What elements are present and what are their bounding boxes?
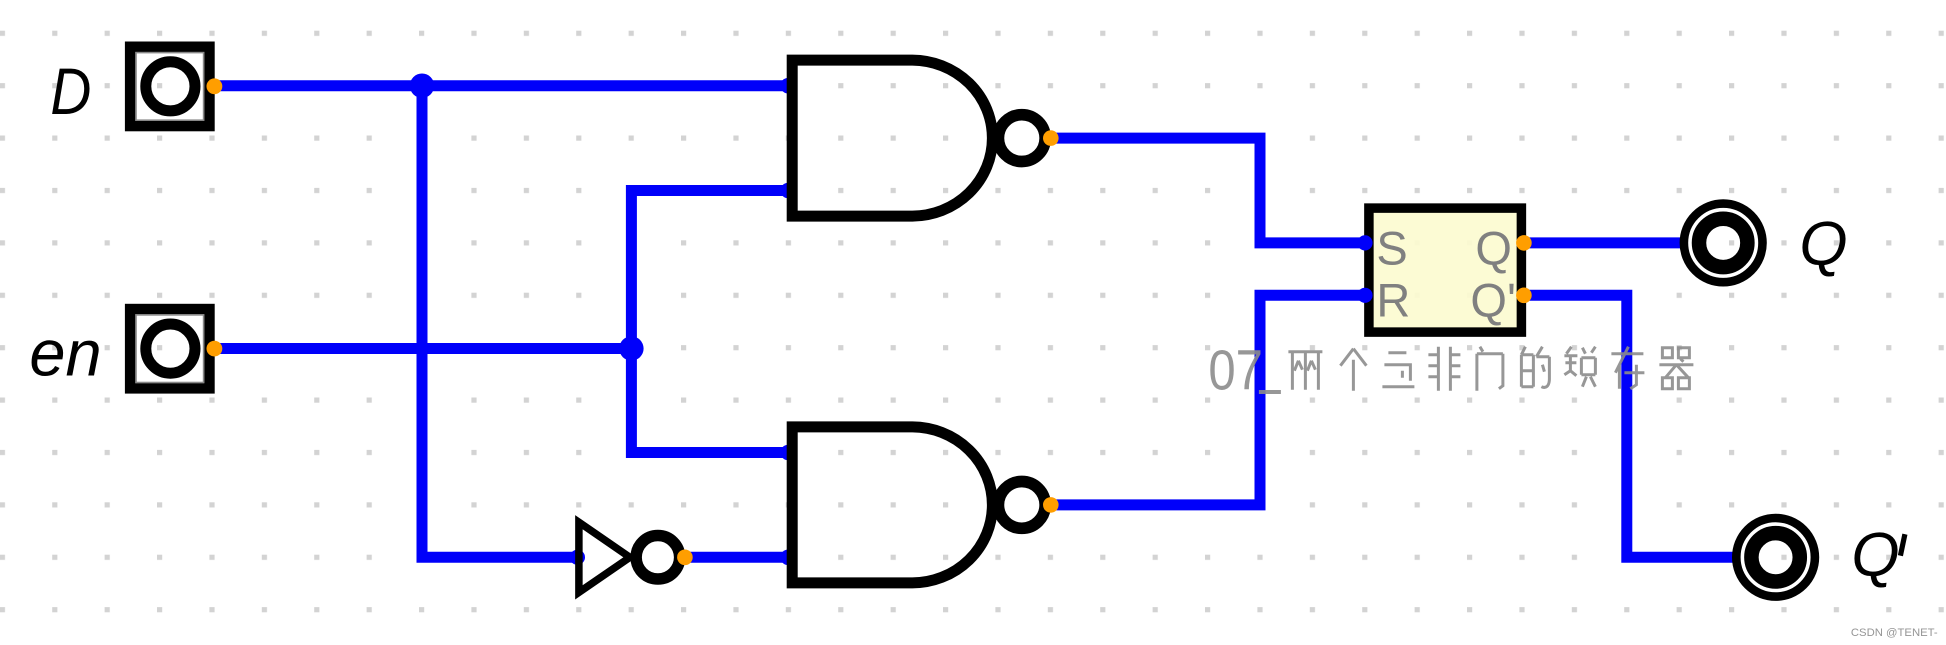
junction on en wire — [619, 336, 643, 360]
NAND gate G2 bubble — [998, 482, 1045, 529]
label D — [50, 55, 91, 129]
NAND gate G2 body — [792, 427, 992, 583]
wire NAND2 out to R — [1051, 295, 1364, 505]
inverter G3 bubble — [636, 536, 680, 580]
wire Q to output terminal — [1524, 237, 1688, 248]
output terminal Q — [1684, 204, 1763, 283]
pin dot NAND1 output — [1043, 130, 1059, 146]
svg-text:Q: Q — [1851, 521, 1899, 590]
pin dot en output — [207, 341, 223, 357]
svg-text:07: 07 — [1208, 339, 1263, 402]
output terminal Q' — [1736, 518, 1815, 597]
wire junction up to NAND1 input2 — [631, 191, 789, 349]
pin dot inverter output — [677, 550, 693, 566]
wire end cap NAND2 input1 — [780, 445, 796, 461]
svg-text:Q: Q — [1799, 210, 1847, 279]
svg-text:Q: Q — [1475, 222, 1512, 275]
wire inverter out to NAND2 input2 — [685, 552, 790, 563]
NAND gate G1 body — [792, 60, 992, 216]
wire D input to NAND1 input1 — [212, 80, 789, 91]
wire end cap NAND2 input2 — [780, 550, 796, 566]
pin dot D output — [207, 78, 223, 94]
junction on D wire — [410, 74, 434, 98]
wire junction down to NAND2 input1 — [631, 349, 789, 453]
watermark glyphs CJK — [1288, 347, 1693, 391]
wire en to junction — [212, 343, 631, 354]
wire NAND1 out to S — [1051, 138, 1364, 243]
input button D — [130, 47, 209, 126]
svg-text:R: R — [1376, 274, 1410, 327]
NAND gate G1 bubble — [998, 115, 1045, 162]
pin dot U1 Q output — [1516, 235, 1532, 251]
wire end cap NAND1 input1 — [780, 78, 796, 94]
inverter G3 triangle — [579, 522, 630, 592]
wire D branch down to inverter — [422, 86, 576, 558]
svg-text:D: D — [50, 55, 91, 129]
svg-text:en: en — [29, 317, 101, 390]
SR latch U1 body — [1369, 208, 1522, 332]
pin dot U1 Q' output — [1516, 288, 1532, 304]
wire end cap inverter input — [570, 550, 585, 565]
wire end cap R pin — [1357, 288, 1372, 303]
wire Q' to output terminal — [1524, 295, 1740, 557]
watermark text 07_ — [1208, 339, 1281, 402]
wire end cap NAND1 input2 — [780, 183, 796, 199]
pin dot NAND2 output — [1043, 497, 1059, 513]
svg-text:S: S — [1376, 222, 1407, 275]
input button en — [130, 309, 209, 388]
svg-text:Q': Q' — [1470, 274, 1516, 327]
svg-text:CSDN @TENET-: CSDN @TENET- — [1851, 627, 1938, 639]
wire end cap S pin — [1357, 235, 1372, 250]
